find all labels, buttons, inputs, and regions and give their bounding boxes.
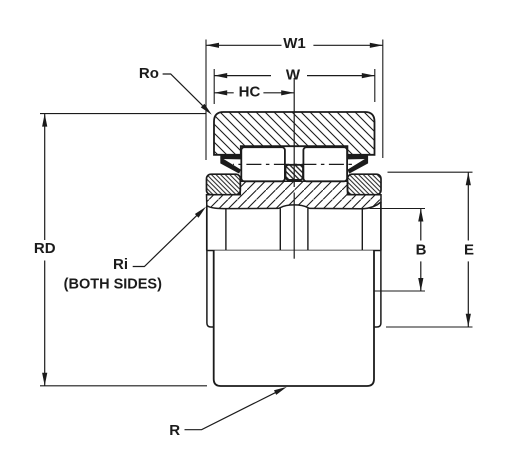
inner ring main band (sectioned, hatched, wavy break line at bottom) (207, 181, 382, 209)
lube boss right edge (exterior view) (307, 208, 309, 250)
svg-text:W1: W1 (283, 35, 306, 52)
svg-text:(BOTH SIDES): (BOTH SIDES) (64, 277, 162, 293)
svg-text:E: E (464, 242, 474, 259)
vertical centerline (293, 78, 295, 187)
svg-text:RD: RD (34, 240, 56, 257)
dimension W extension line left (213, 69, 215, 104)
dimension B line (420, 209, 422, 241)
inner ring side plate right (348, 174, 382, 195)
dimension HC line (214, 92, 234, 94)
leader line R (points to outer ring edge radius) (185, 392, 277, 429)
dimension E line (467, 172, 469, 240)
roller right (303, 147, 347, 181)
dimension RD line (44, 114, 46, 240)
svg-text:Ri: Ri (113, 256, 128, 273)
inner ring end tab left (exterior) (207, 251, 214, 328)
outer ring (sectioned, hatched) (214, 112, 375, 155)
dimension RD extension line bottom (40, 385, 207, 387)
svg-text:W: W (286, 66, 301, 83)
roller axis dash-dot line (233, 163, 356, 165)
svg-text:HC: HC (239, 84, 261, 101)
inner ring right face edge (exterior view) (380, 202, 382, 251)
inner ring side plate left (Ri flange) (207, 174, 241, 195)
inner ring left face edge (exterior view) (206, 206, 208, 251)
dimension W1 line (206, 44, 282, 46)
leader line Ri (points to inner ring corner radius) (133, 215, 198, 267)
roller left (241, 147, 285, 181)
outer ring exterior (lower half view) (214, 251, 374, 387)
exterior band bottom edge (half-section boundary) (207, 250, 381, 252)
svg-text:B: B (416, 242, 427, 259)
svg-text:Ro: Ro (139, 65, 159, 82)
seal left (220, 155, 240, 160)
dimension W line (214, 75, 271, 77)
dimension E extension line bottom (386, 326, 473, 328)
inner ring right end step edge (exterior view) (361, 209, 363, 251)
dimension B extension line bottom (369, 290, 426, 292)
inner ring end tab right (exterior) (374, 251, 381, 328)
dimension E extension line top (388, 171, 473, 173)
dimension W1 extension line left (205, 40, 207, 161)
svg-text:R: R (169, 422, 180, 439)
lube boss left edge (exterior view) (279, 208, 281, 250)
inner ring left end step edge (exterior view) (225, 209, 227, 251)
center rib of inner ring (286, 165, 304, 180)
leader line Ro (points to outer ring corner radius) (163, 74, 203, 106)
dimension B extension line top (370, 208, 426, 210)
dimension W extension line right (374, 69, 376, 102)
dimension W1 extension line right (382, 40, 384, 159)
dimension RD extension line top (40, 113, 206, 115)
seal right (348, 155, 368, 160)
